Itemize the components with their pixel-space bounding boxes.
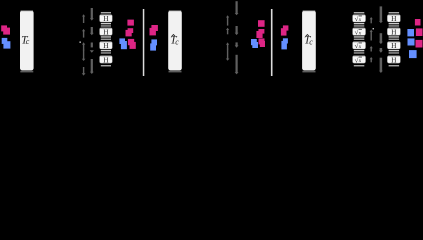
token input M1 p3 [283,25,289,30]
sqrt stack p3 unit 3 [353,42,366,54]
svg-text:c: c [26,37,30,46]
transformer box That panel 3 [302,11,316,73]
svg-text:H: H [103,27,109,36]
H stack p1 unit 4 [100,55,113,66]
svg-text:H: H [391,55,397,64]
token input M2 p3 [281,28,287,35]
token input M2 p2 [150,28,156,36]
token output M r2 p3 [416,28,423,36]
down arrow seg1 right track p2 [235,1,239,15]
down arrow r4 left track p1 [82,50,86,61]
token input B2 p2 [150,43,156,50]
up arrow r3 left track p1 [82,42,85,50]
svg-text:H: H [103,14,109,23]
token output M r3a p1 [128,39,134,45]
svg-text:c: c [175,37,179,46]
token output M r1 p3 [415,19,421,26]
H stack p3 unit 1 [387,12,400,26]
token input M1 p2 [151,25,158,31]
svg-text:x: x [358,58,362,64]
down arrow r4 left track p2 [226,49,230,61]
svg-text:x: x [358,44,362,50]
divider 1 [143,9,145,76]
svg-text:H: H [103,41,109,50]
transformer box That panel 2 [168,11,182,73]
token input B2 p1 [3,41,10,48]
token input M1 p1 [1,25,7,31]
svg-text:H: H [391,14,397,23]
down arrow seg3 head right track p1 [90,50,94,53]
svg-text:H: H [391,41,397,50]
down arrow seg3 shaft right track p1 [91,43,93,48]
token output B r3a p2 [251,39,257,45]
token input B2 p3 [281,41,287,50]
up arrow B mid-left track p3 [370,30,373,41]
down arrow seg1 right track p1 [90,8,94,21]
token output M r3b p1 [130,42,136,49]
token input B1 p1 [2,38,8,44]
down arrow seg4 right track p2 [235,55,239,75]
down arrow seg3 right track p2 [235,42,239,47]
token output M r1 p1 [127,20,133,26]
token output M r3a p2 [259,38,265,44]
H stack p1 unit 3 [100,41,113,53]
token output M r3b p2 [260,41,265,47]
down arrow seg2 right track p1 [90,27,94,35]
down arrow seg1 mid track p3 [379,6,383,23]
H stack p3 unit 2 [387,27,400,39]
svg-text:x: x [358,17,362,23]
up arrow C mid-left track p3 [370,46,373,52]
svg-text:c: c [309,37,313,46]
token output M r3 p3 [416,40,423,48]
H stack p3 unit 3 [387,41,400,53]
divider 2 [271,9,273,76]
H stack p1 unit 1 [100,12,113,26]
up arrow r2 left track p2 [226,28,229,35]
token output M r2b p2 [256,31,262,38]
transformer box Tc panel 1 [20,11,34,73]
down arrow seg3 mid track p3 [379,48,383,53]
svg-text:H: H [103,55,109,64]
sparkle dot p1 [80,42,81,43]
token output B r3 p3 [408,38,415,45]
H stack p3 unit 4 [387,55,400,66]
up arrow r3 left track p2 [226,42,229,49]
token output M r2a p2 [258,29,264,34]
token output B r2 p3 [407,29,414,36]
svg-text:H: H [391,27,397,36]
token input B1 p2 [151,39,157,45]
sparkle dot p3 [373,28,374,29]
down arrow seg2 mid track p3 [379,33,383,44]
token input M2 p1 [3,28,10,35]
up arrow D mid-left track p3 [370,57,373,62]
svg-text:x: x [358,30,362,36]
sqrt stack p3 unit 1 [353,12,366,26]
token output M r1 p2 [258,20,265,27]
up arrow r2 left track p1 [82,29,85,38]
H stack p1 unit 2 [100,27,113,39]
token output B r4 p3 [409,50,417,58]
up arrow r1 left track p2 [226,15,229,25]
token output M r2b p1 [126,30,132,37]
sqrt stack p3 unit 2 [353,28,366,40]
token output B r3a p1 [119,38,125,44]
up arrow r1 left track p1 [82,14,85,23]
token output M r2a p1 [128,28,134,33]
token input B1 p3 [283,38,288,43]
token output B r3b p2 [252,42,258,48]
down arrow seg2 right track p2 [235,26,239,35]
tail down arrow left track p1 [82,67,86,76]
up arrow A mid-left track p3 [370,17,373,23]
sqrt stack p3 unit 4 [353,56,366,67]
down arrow seg4 right track p1 [90,59,94,74]
token output B r3b p1 [121,41,127,49]
down arrow seg4 mid track p3 [379,58,383,73]
